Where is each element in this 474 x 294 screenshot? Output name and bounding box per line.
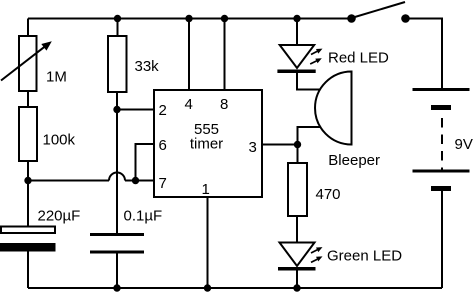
switch SW1 lever: [352, 2, 406, 18]
svg-text:Bleeper: Bleeper: [328, 152, 380, 169]
svg-text:470: 470: [316, 186, 341, 203]
svg-text:Green LED: Green LED: [327, 248, 402, 265]
node bottom rail green LED: [293, 284, 300, 291]
bleeper body: [315, 72, 351, 145]
svg-text:7: 7: [159, 175, 167, 192]
green LED cathode bar: [278, 267, 316, 271]
wire hop to pin 7: [125, 180, 154, 182]
wire battery to bottom rail: [441, 191, 443, 288]
red LED arrow 1: [311, 49, 323, 55]
wire green LED to bottom rail: [296, 270, 298, 288]
battery B1 cell 2 short plate: [431, 186, 451, 191]
node pin 3 junction: [294, 141, 301, 148]
svg-text:6: 6: [159, 137, 167, 154]
diode D2 green LED triangle: [280, 243, 315, 267]
node bottom rail 0.1uF: [113, 284, 120, 291]
wire top rail to red LED: [296, 19, 298, 46]
wire pot to 100k: [27, 91, 29, 107]
svg-text:Red LED: Red LED: [328, 49, 389, 66]
wire pin 1 to bottom rail: [207, 197, 209, 288]
wire top rail to 33k: [117, 19, 119, 37]
wire pin 3: [262, 144, 298, 146]
node bottom rail pin 1: [204, 284, 211, 291]
wire switch to battery: [406, 19, 443, 89]
node top rail to pin 4: [185, 15, 192, 22]
wire 0.1uF to bottom rail: [116, 254, 118, 289]
battery dashed link: [441, 118, 443, 171]
capacitor C1 220uF positive plate: [1, 227, 55, 234]
wire top rail: [28, 18, 352, 20]
diode D1 red LED triangle: [280, 45, 315, 68]
wire hop over vertical: [109, 173, 125, 181]
red LED cathode bar: [277, 69, 315, 73]
svg-text:9V: 9V: [455, 136, 473, 153]
node top rail to 33k: [114, 15, 121, 22]
svg-text:3: 3: [249, 139, 257, 156]
red LED arrow 2: [310, 58, 322, 64]
node top rail to red LED: [293, 15, 300, 22]
resistor R1 100k: [19, 107, 37, 161]
op-amp U1 555 timer box: [154, 90, 262, 197]
wire bottom rail: [28, 287, 442, 289]
switch SW1 left contact: [347, 14, 356, 23]
wire pin 7 from left rail with hop: [28, 180, 109, 182]
potentiometer arrow: [1, 41, 52, 80]
wire 100k to 220uF: [27, 161, 29, 227]
node pin 6 pin 7 junction: [132, 177, 139, 184]
wire pin3 node to bleeper bottom terminal: [298, 127, 321, 145]
wire red LED to bleeper top terminal: [297, 73, 321, 90]
battery B1 cell 2 long plate: [413, 170, 470, 173]
capacitor C2 0.1uF top plate: [90, 233, 144, 236]
svg-text:220µF: 220µF: [38, 208, 81, 225]
green LED arrow 2: [311, 256, 323, 262]
wire 470 to green LED: [296, 216, 298, 243]
battery B1 cell 1 short plate: [431, 105, 451, 110]
wire pin 8: [224, 19, 226, 91]
svg-text:0.1µF: 0.1µF: [124, 208, 163, 225]
resistor R2 33k: [108, 36, 127, 92]
node top rail to pin 8: [221, 15, 228, 22]
battery B1 cell 1 long plate: [413, 88, 470, 91]
switch SW1 right contact: [401, 14, 410, 23]
capacitor C1 220uF negative plate: [0, 243, 56, 252]
svg-text:8: 8: [220, 96, 228, 113]
wire 33k to 0.1uF: [116, 92, 118, 233]
svg-text:100k: 100k: [43, 132, 76, 149]
wire pin3 node to 470: [297, 145, 299, 164]
svg-text:2: 2: [159, 102, 167, 119]
resistor VR1 1M potentiometer body: [19, 36, 37, 91]
capacitor C2 0.1uF bottom plate: [90, 251, 144, 254]
resistor R3 470: [288, 163, 307, 216]
svg-text:33k: 33k: [135, 58, 160, 75]
wire pin 4: [188, 19, 190, 91]
wire pin 6: [136, 144, 155, 181]
green LED arrow 1: [311, 247, 323, 253]
wire 220uF to bottom rail: [27, 252, 29, 289]
svg-text:1: 1: [202, 181, 210, 198]
node left rail pin 7 branch: [24, 177, 31, 184]
svg-text:timer: timer: [190, 136, 223, 153]
node 33k pin 2 junction: [113, 106, 120, 113]
wire top-left corner down to pot: [27, 19, 29, 37]
svg-text:4: 4: [185, 96, 193, 113]
wire pin 2: [117, 109, 154, 111]
svg-text:1M: 1M: [46, 69, 67, 86]
